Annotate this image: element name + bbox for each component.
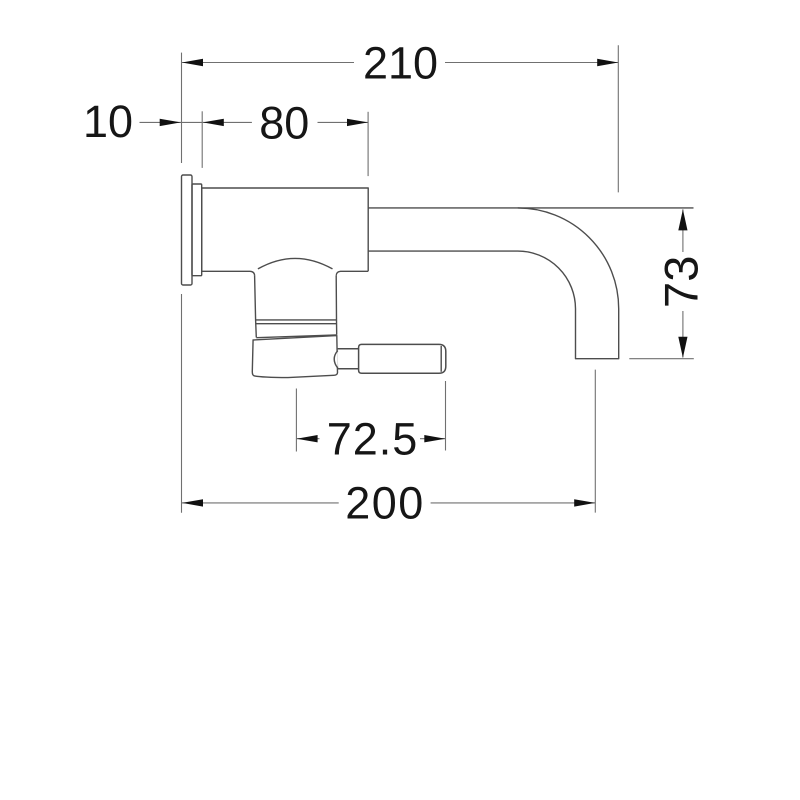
arrow 200 right	[574, 499, 595, 506]
svg-text:72.5: 72.5	[327, 413, 419, 464]
spout top reference line (73 dim)	[518, 207, 694, 209]
inner flange	[192, 184, 202, 276]
handle base	[252, 335, 337, 378]
extension line left (top, wall face)	[181, 53, 183, 163]
grip end cap line	[440, 346, 442, 372]
10 dimension line	[140, 121, 203, 123]
svg-text:210: 210	[363, 38, 438, 89]
transition arc	[258, 258, 333, 269]
svg-text:10: 10	[83, 96, 133, 147]
210 dimension line	[182, 62, 618, 64]
lever neck	[338, 349, 359, 369]
arrow 210 left	[182, 59, 203, 66]
72.5 dimension line	[297, 438, 446, 440]
arrow 72.5 right	[424, 435, 445, 442]
extension line x=202 (10/80 dim)	[201, 111, 203, 168]
73 dimension line	[682, 209, 684, 357]
wall plate	[182, 175, 193, 285]
arrow 72.5 left	[297, 435, 318, 442]
lever grip	[359, 344, 446, 373]
extension line x=368 (80 dim)	[367, 112, 369, 176]
svg-text:73: 73	[655, 256, 708, 308]
arrow 73 bottom (points down)	[678, 337, 687, 358]
extension line spout tip (210 dim)	[617, 45, 619, 192]
spout tube and bend	[368, 208, 619, 359]
80 dimension line	[203, 121, 368, 123]
neck ball end	[334, 351, 338, 369]
arrow 10 left (points right)	[160, 119, 181, 126]
tap body	[202, 188, 369, 276]
svg-text:80: 80	[259, 97, 309, 148]
arrow 73 top (points up)	[678, 209, 687, 230]
arrow 200 left	[182, 499, 203, 506]
svg-text:200: 200	[345, 478, 425, 529]
arrow 80 left (points left)	[203, 119, 224, 126]
extension line outlet centre (200 dim)	[594, 370, 596, 513]
extension line lever end (72.5 dim)	[445, 381, 447, 451]
extension line left (bottom, wall face)	[181, 294, 183, 513]
groove lines	[256, 320, 337, 324]
extension line handle axis (72.5 dim)	[295, 389, 297, 452]
200 dimension line	[182, 502, 595, 504]
73 bottom reference line	[629, 358, 694, 360]
arrow 210 right	[597, 59, 618, 66]
valve housing	[255, 276, 337, 338]
arrow 80 right (points right)	[347, 119, 368, 126]
